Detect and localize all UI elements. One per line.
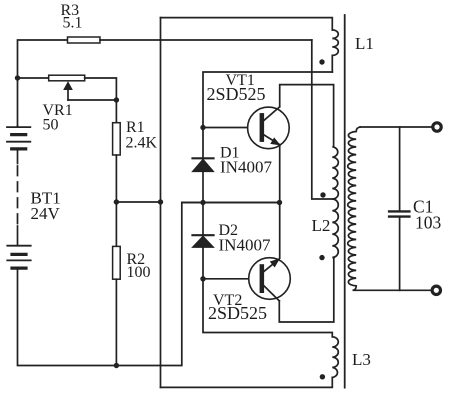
svg-text:100: 100 (127, 264, 151, 281)
wire L1 bottom to diode rail (203, 72, 332, 158)
transistor VT1 (207, 72, 290, 149)
capacitor C1 (389, 127, 441, 290)
winding L2 (332, 147, 338, 258)
wire R3 to supply drop (100, 39, 312, 41)
junction dot VT1 base / diode rail (200, 125, 205, 130)
wire VR1 wiper link (68, 99, 116, 101)
junction dot D2 / VT2 base (200, 276, 205, 281)
wire R1/R2 junction to feedback rail (116, 201, 160, 203)
wire feedback loop bottom (161, 378, 333, 388)
wire VT1 emitter down to VT2 emitter (279, 145, 281, 259)
svg-text:103: 103 (415, 213, 442, 233)
output terminal bottom (432, 286, 440, 294)
winding L1 (332, 30, 338, 72)
svg-text:2SD525: 2SD525 (208, 303, 267, 323)
resistor R3 (68, 37, 101, 43)
svg-text:2SD525: 2SD525 (207, 84, 266, 104)
diode D2 (192, 222, 271, 255)
junction dot R1/R2 (114, 199, 119, 204)
polarity dot L2 lower (319, 255, 324, 260)
wire VT1 collector to L2 top (280, 85, 334, 147)
wire R2 bottom (115, 279, 117, 365)
wire secondary top to output terminal (360, 126, 431, 128)
wire R1 bottom to R2 top (115, 155, 117, 246)
wire VT2 collector to L2 bottom (279, 258, 334, 323)
svg-text:2.4K: 2.4K (126, 135, 158, 152)
svg-text:L3: L3 (352, 350, 371, 369)
wire left rail top corner to battery (18, 40, 68, 127)
wire supply drop to L2 center tap (312, 40, 333, 199)
transformer core (344, 15, 346, 388)
junction dot wiper / R1 rail (114, 97, 119, 102)
potentiometer VR1 (43, 75, 85, 133)
wire battery negative to ground link (18, 203, 280, 366)
output terminal top (433, 123, 441, 131)
polarity dot L1 (319, 59, 324, 64)
svg-text:5.1: 5.1 (63, 15, 83, 32)
svg-text:24V: 24V (31, 204, 61, 223)
resistor R1 (113, 123, 121, 155)
wire feedback loop left (160, 18, 162, 388)
wire D1 anode to D2 cathode (202, 172, 204, 236)
wire left rail to VR1 (18, 77, 49, 79)
svg-text:R1: R1 (126, 119, 145, 136)
junction dot feedback rail (158, 199, 163, 204)
junction dot left rail / VR1 (15, 75, 20, 80)
wire VT1 base (203, 127, 260, 129)
resistor R2 (113, 246, 121, 279)
svg-text:50: 50 (43, 117, 59, 134)
wire VR1 right end down to R1 (85, 78, 117, 123)
svg-text:IN4007: IN4007 (219, 236, 271, 255)
junction dot emitter rail / ground link (277, 200, 282, 205)
battery BT1 (7, 126, 61, 268)
diode D1 (192, 145, 272, 177)
polarity dot L3 (320, 374, 325, 379)
secondary winding (348, 127, 431, 290)
transistor VT2 (208, 258, 290, 323)
junction dot diode rail / ground link (200, 200, 205, 205)
wire feedback loop top (161, 18, 333, 30)
svg-text:IN4007: IN4007 (220, 158, 272, 177)
polarity dot L2 upper (320, 192, 325, 197)
wire VT2 base (203, 278, 260, 280)
svg-text:L1: L1 (355, 34, 374, 53)
wire ground link row (182, 202, 280, 204)
winding L3 (332, 337, 338, 378)
wire D2 anode to VT2 base rail and L3 (203, 247, 332, 336)
junction dot R2 bottom (114, 363, 119, 368)
svg-text:L2: L2 (312, 216, 331, 235)
